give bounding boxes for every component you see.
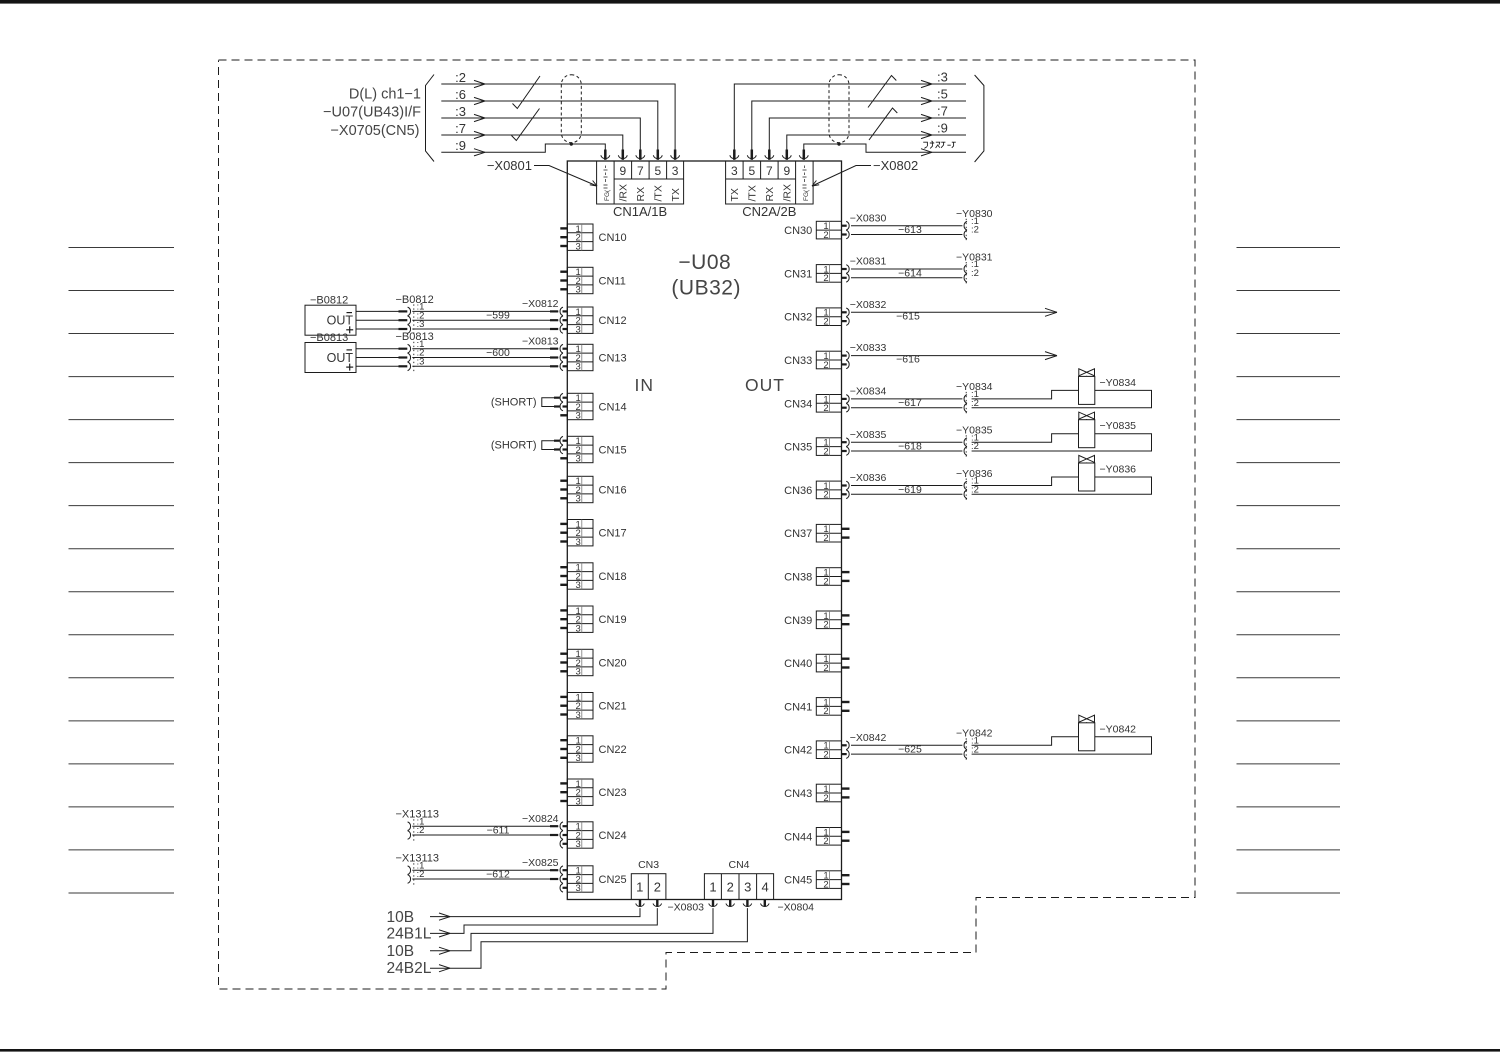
- connector Y0831: [956, 251, 993, 285]
- connector B0813 cable side: [396, 331, 434, 373]
- unit U08 (UB32) outline: [567, 161, 841, 900]
- svg-text:3: 3: [576, 362, 581, 373]
- wire -616: [851, 352, 1057, 366]
- connector CN1A/1B: [597, 161, 684, 219]
- svg-text:−X0835: −X0835: [850, 429, 887, 441]
- svg-text:−625: −625: [898, 744, 922, 756]
- svg-text:FG(: FG(: [604, 189, 611, 201]
- connector CN16: [560, 476, 626, 505]
- svg-text:CN4: CN4: [728, 859, 749, 871]
- svg-text:2: 2: [823, 706, 828, 717]
- svg-text:3: 3: [576, 839, 581, 850]
- wire D(L) ch1-1 :9 into CN1A: [441, 138, 605, 156]
- svg-text:−X0832: −X0832: [850, 299, 887, 311]
- connector CN22: [560, 736, 626, 765]
- svg-text:−X0834: −X0834: [850, 386, 887, 398]
- svg-text:7: 7: [766, 164, 773, 178]
- svg-text:CN36: CN36: [784, 485, 812, 497]
- svg-text::9: :9: [455, 138, 466, 153]
- svg-text:−U08: −U08: [678, 251, 731, 274]
- svg-text:FG(: FG(: [803, 189, 810, 201]
- connector CN2A/2B: [726, 161, 814, 219]
- connector X0832: [842, 299, 887, 326]
- svg-text:3: 3: [576, 580, 581, 591]
- connector X0833: [842, 342, 887, 369]
- wire CN2A :9 out: [787, 121, 966, 150]
- connector CN23: [560, 779, 626, 808]
- svg-text:IN: IN: [635, 375, 655, 395]
- wire D(L) ch1-1 :3 into CN1A: [441, 104, 640, 150]
- svg-text:−X0804: −X0804: [778, 902, 815, 914]
- svg-text:CN13: CN13: [599, 353, 627, 365]
- connector CN32: [784, 308, 841, 328]
- svg-text::2: :2: [971, 225, 979, 236]
- wire 10B to CN4 pin1: [387, 908, 714, 960]
- twisted pair mark right 1: [868, 76, 896, 108]
- connector CN10: [560, 224, 626, 253]
- svg-text:−611: −611: [487, 825, 510, 837]
- svg-text::3: :3: [937, 70, 948, 85]
- connector CN36: [784, 481, 841, 501]
- svg-text:9: 9: [619, 164, 626, 178]
- svg-text:CN39: CN39: [784, 615, 812, 627]
- svg-text:−X0705(CN5): −X0705(CN5): [330, 123, 419, 139]
- svg-text:3: 3: [576, 883, 581, 894]
- svg-text:3: 3: [744, 880, 751, 895]
- svg-text:−619: −619: [898, 484, 922, 496]
- wire -614: [851, 267, 962, 279]
- svg-text:−Y0834: −Y0834: [956, 381, 993, 393]
- svg-text:−Y0836: −Y0836: [1100, 464, 1137, 476]
- svg-text:CN41: CN41: [784, 701, 812, 713]
- short plug (SHORT): [491, 436, 568, 453]
- svg-text:−Y0842: −Y0842: [956, 728, 993, 740]
- svg-text::2: :2: [971, 485, 979, 496]
- connector X0812: [522, 298, 568, 333]
- svg-text:CN1A/1B: CN1A/1B: [613, 204, 667, 219]
- svg-text:OUT: OUT: [745, 375, 785, 395]
- svg-text::7: :7: [937, 104, 948, 119]
- wire -617: [851, 390, 1152, 409]
- svg-text:(UB32): (UB32): [671, 277, 741, 300]
- connector X0802: [730, 150, 918, 187]
- svg-text:CN35: CN35: [784, 442, 812, 454]
- svg-text:1: 1: [636, 880, 643, 895]
- svg-text:−Y0836: −Y0836: [956, 468, 993, 480]
- connector X0824: [522, 813, 568, 848]
- wire CN2A :3 out: [734, 70, 966, 150]
- cable bundle bracket right: [975, 75, 984, 162]
- svg-text:3: 3: [576, 411, 581, 422]
- connector CN18: [560, 563, 626, 592]
- svg-text:CN40: CN40: [784, 658, 812, 670]
- cable shield right: [829, 75, 849, 146]
- connector CN39: [784, 611, 849, 631]
- svg-text:CN33: CN33: [784, 355, 812, 367]
- svg-text:TX: TX: [670, 188, 682, 201]
- svg-text::7: :7: [455, 121, 466, 136]
- svg-text:−X0803: −X0803: [668, 902, 705, 914]
- svg-text:2: 2: [823, 273, 828, 284]
- svg-text:CN10: CN10: [599, 232, 627, 244]
- svg-text::6: :6: [455, 87, 466, 102]
- svg-text:−X0801: −X0801: [487, 158, 532, 173]
- connector CN43: [784, 784, 849, 804]
- wire -599: [356, 310, 558, 329]
- svg-text:−U07(UB43)I/F: −U07(UB43)I/F: [323, 105, 421, 121]
- connector X0834: [842, 386, 887, 413]
- svg-text:2: 2: [823, 793, 828, 804]
- connector CN30: [784, 221, 841, 241]
- label OUT: [745, 375, 785, 395]
- wire -611: [412, 825, 558, 837]
- svg-text:3: 3: [576, 285, 581, 296]
- label D(L) ch1-1: [349, 87, 421, 103]
- connector X0804: [709, 900, 814, 914]
- svg-text:2: 2: [823, 879, 828, 890]
- svg-text:OUT: OUT: [327, 314, 354, 328]
- connector CN20: [560, 649, 626, 678]
- svg-text:CN23: CN23: [599, 787, 627, 799]
- wire 10B to CN3 pin1: [387, 908, 641, 926]
- wire -613: [851, 224, 962, 236]
- svg-text:TX: TX: [729, 188, 741, 201]
- svg-text:CN45: CN45: [784, 875, 812, 887]
- connector CN14: [560, 393, 626, 422]
- svg-text:CN31: CN31: [784, 268, 812, 280]
- connector CN3: [631, 859, 666, 899]
- svg-text:−B0812: −B0812: [310, 295, 348, 307]
- connector B0812 cable side: [396, 294, 434, 336]
- svg-text:CN32: CN32: [784, 312, 812, 324]
- connector CN24: [567, 822, 626, 851]
- label -X0705(CN5): [330, 123, 419, 139]
- svg-text:RX: RX: [764, 187, 776, 202]
- svg-text:7: 7: [637, 164, 644, 178]
- svg-text:CN17: CN17: [599, 528, 627, 540]
- connector CN37: [784, 524, 849, 544]
- svg-text:1: 1: [709, 880, 716, 895]
- svg-text:−615: −615: [896, 310, 920, 322]
- svg-text:2: 2: [823, 403, 828, 414]
- svg-text:−X0813: −X0813: [522, 335, 559, 347]
- svg-text:−X0824: −X0824: [522, 813, 559, 825]
- svg-text:/RX: /RX: [782, 184, 794, 202]
- svg-text:2: 2: [823, 446, 828, 457]
- connector CN4: [704, 859, 773, 899]
- svg-text:−X0833: −X0833: [850, 342, 887, 354]
- battery B0812: [305, 295, 356, 336]
- svg-text:3: 3: [576, 454, 581, 465]
- svg-text::2: :2: [455, 70, 466, 85]
- svg-text:RX: RX: [635, 187, 647, 202]
- connector X0813: [522, 335, 568, 370]
- svg-text:CN12: CN12: [599, 315, 627, 327]
- label IN: [635, 375, 655, 395]
- svg-text:CN2A/2B: CN2A/2B: [742, 204, 796, 219]
- connector CN42: [784, 741, 841, 761]
- svg-text:−X13113: −X13113: [396, 809, 440, 821]
- wire 24B1L to CN3 pin2: [387, 908, 658, 943]
- svg-text:CN30: CN30: [784, 225, 812, 237]
- wire CN2A :7 out: [769, 104, 966, 150]
- cable bundle bracket left: [426, 75, 435, 162]
- wire -600: [356, 347, 558, 366]
- label -U07(UB43)I/F: [323, 105, 421, 121]
- svg-text:CN42: CN42: [784, 745, 812, 757]
- wire -625: [851, 737, 1152, 756]
- svg-text:−X0802: −X0802: [873, 158, 918, 173]
- svg-text:CN38: CN38: [784, 572, 812, 584]
- connector CN38: [784, 568, 849, 588]
- label -U08: [678, 251, 731, 274]
- svg-text:24B1L: 24B1L: [387, 926, 432, 943]
- solenoid valve Y0834: [1079, 369, 1137, 405]
- svg-text:CN20: CN20: [599, 658, 627, 670]
- svg-text:CN14: CN14: [599, 402, 627, 414]
- connector X0830: [842, 212, 887, 239]
- svg-text:−X0842: −X0842: [850, 732, 887, 744]
- connector CN11: [560, 267, 626, 296]
- svg-text:−618: −618: [898, 441, 922, 453]
- svg-text:3: 3: [576, 796, 581, 807]
- svg-text:24B2L: 24B2L: [387, 960, 432, 977]
- connector CN33: [784, 351, 841, 371]
- svg-text:CN21: CN21: [599, 701, 627, 713]
- svg-text:CN11: CN11: [599, 276, 626, 288]
- svg-text:−Y0830: −Y0830: [956, 208, 993, 220]
- connector CN44: [784, 827, 849, 847]
- svg-text:2: 2: [823, 750, 828, 761]
- svg-text:−616: −616: [896, 354, 920, 366]
- svg-text:CN15: CN15: [599, 445, 627, 457]
- svg-text:CN18: CN18: [599, 571, 627, 583]
- svg-text:2: 2: [654, 880, 661, 895]
- twisted pair mark right 2: [869, 108, 897, 140]
- wire CN2A FG connector-case out: [804, 141, 966, 156]
- twisted pair mark left 1: [513, 76, 541, 109]
- connector X0842: [842, 732, 887, 759]
- svg-text::3: :3: [455, 104, 466, 119]
- svg-text::2: :2: [971, 398, 979, 409]
- svg-text:5: 5: [748, 164, 755, 178]
- svg-text:−600: −600: [486, 347, 510, 359]
- svg-text:−612: −612: [486, 869, 510, 881]
- connector CN31: [784, 264, 841, 284]
- svg-text:−X0830: −X0830: [850, 212, 887, 224]
- wire -619: [851, 477, 1152, 496]
- svg-text:CN43: CN43: [784, 788, 812, 800]
- svg-text:5: 5: [654, 164, 661, 178]
- connector CN13: [567, 344, 626, 373]
- svg-text:3: 3: [576, 710, 581, 721]
- svg-text::2: :2: [971, 744, 979, 755]
- connector Y0835 cable side: [956, 425, 993, 459]
- svg-text:3: 3: [731, 164, 738, 178]
- svg-text:−X0836: −X0836: [850, 472, 887, 484]
- svg-text:−614: −614: [898, 267, 922, 279]
- svg-text:−Y0834: −Y0834: [1100, 377, 1137, 389]
- twisted pair mark left 2: [512, 109, 540, 141]
- svg-text:−Y0835: −Y0835: [956, 425, 993, 437]
- svg-text:−599: −599: [486, 310, 510, 322]
- svg-text:−Y0835: −Y0835: [1100, 420, 1137, 432]
- connector CN25: [567, 866, 626, 895]
- connector CN34: [784, 394, 841, 414]
- svg-text:CN3: CN3: [638, 859, 659, 871]
- svg-text:3: 3: [576, 324, 581, 335]
- svg-text:OUT: OUT: [327, 351, 354, 365]
- connector CN17: [560, 519, 626, 548]
- svg-text:2: 2: [823, 576, 828, 587]
- svg-text:3: 3: [576, 241, 581, 252]
- connector CN41: [784, 697, 849, 717]
- svg-text:10B: 10B: [387, 943, 415, 960]
- svg-text:CN16: CN16: [599, 485, 627, 497]
- svg-text:−Y0831: −Y0831: [956, 251, 993, 263]
- svg-text:2: 2: [823, 533, 828, 544]
- solenoid valve Y0836: [1079, 455, 1137, 491]
- svg-text:9: 9: [783, 164, 790, 178]
- svg-text:−X0812: −X0812: [522, 298, 559, 310]
- connector X13113 (to CN24): [396, 809, 440, 842]
- svg-text:2: 2: [823, 663, 828, 674]
- svg-text:−Y0842: −Y0842: [1100, 723, 1137, 735]
- svg-text:CN22: CN22: [599, 744, 627, 756]
- svg-text:3: 3: [576, 537, 581, 548]
- wire -612: [412, 869, 558, 881]
- connector CN15: [560, 436, 626, 465]
- wire D(L) ch1-1 :7 into CN1A: [441, 121, 623, 150]
- connector Y0836 cable side: [956, 468, 993, 502]
- label (UB32): [671, 277, 741, 300]
- short plug (SHORT): [491, 393, 568, 410]
- connector CN21: [560, 692, 626, 721]
- svg-text:−B0813: −B0813: [310, 332, 348, 344]
- svg-text:4: 4: [761, 880, 768, 895]
- solenoid valve Y0842: [1079, 715, 1137, 751]
- connector Y0834 cable side: [956, 381, 993, 415]
- svg-text:−617: −617: [898, 397, 922, 409]
- svg-text:D(L) ch1−1: D(L) ch1−1: [349, 87, 421, 103]
- svg-text:10B: 10B: [387, 909, 415, 926]
- solenoid valve Y0835: [1079, 412, 1137, 448]
- wire 24B2L to CN4 pin3: [387, 908, 748, 977]
- svg-text:CN34: CN34: [784, 398, 812, 410]
- svg-text:2: 2: [823, 490, 828, 501]
- connector Y0830: [956, 208, 993, 242]
- battery B0813: [305, 332, 356, 373]
- wire D(L) ch1-1 :6 into CN1A: [441, 87, 658, 150]
- svg-text:/TX: /TX: [747, 185, 759, 201]
- svg-text:2: 2: [823, 620, 828, 631]
- connector X0831: [842, 256, 887, 283]
- svg-text:3: 3: [672, 164, 679, 178]
- svg-text:/RX: /RX: [618, 184, 630, 202]
- svg-text:2: 2: [727, 880, 734, 895]
- svg-text::2: :2: [971, 441, 979, 452]
- svg-text:−X13113: −X13113: [396, 853, 440, 865]
- wire -618: [851, 434, 1152, 453]
- svg-text:CN19: CN19: [599, 614, 627, 626]
- connector X13113 (to CN25): [396, 853, 440, 886]
- connector X0801: [487, 150, 680, 187]
- connector CN12: [567, 307, 626, 336]
- svg-text::9: :9: [937, 121, 948, 136]
- connector Y0842 cable side: [956, 728, 993, 762]
- svg-text:2: 2: [823, 836, 828, 847]
- wire CN2A :5 out: [752, 87, 966, 150]
- connector CN35: [784, 438, 841, 458]
- connector X0825: [522, 857, 568, 892]
- svg-text:(SHORT): (SHORT): [491, 440, 537, 452]
- svg-text:/TX: /TX: [653, 185, 665, 201]
- svg-text:CN37: CN37: [784, 528, 812, 540]
- svg-text:(SHORT): (SHORT): [491, 397, 537, 409]
- connector X0835: [842, 429, 887, 456]
- svg-text:2: 2: [823, 317, 828, 328]
- svg-text:3: 3: [576, 667, 581, 678]
- svg-text:−B0812: −B0812: [396, 294, 434, 306]
- svg-text:−X0831: −X0831: [850, 256, 887, 268]
- connector CN19: [560, 606, 626, 635]
- svg-text:3: 3: [576, 753, 581, 764]
- svg-text:−613: −613: [898, 224, 922, 236]
- svg-text:−X0825: −X0825: [522, 857, 559, 869]
- connector X0836: [842, 472, 887, 499]
- svg-text:3: 3: [576, 494, 581, 505]
- svg-text:3: 3: [576, 623, 581, 634]
- cable shield left: [561, 75, 581, 146]
- connector CN45: [784, 871, 849, 891]
- wire D(L) ch1-1 :2 into CN1A: [441, 70, 675, 150]
- svg-text:CN44: CN44: [784, 831, 812, 843]
- svg-text::5: :5: [937, 87, 948, 102]
- svg-text:CN24: CN24: [599, 830, 627, 842]
- svg-text:2: 2: [823, 230, 828, 241]
- svg-text:−B0813: −B0813: [396, 331, 434, 343]
- wire -615: [851, 308, 1057, 322]
- svg-text:2: 2: [823, 360, 828, 371]
- svg-text::2: :2: [971, 268, 979, 279]
- svg-text:CN25: CN25: [599, 874, 627, 886]
- connector CN40: [784, 654, 849, 674]
- connector X0803: [636, 900, 704, 914]
